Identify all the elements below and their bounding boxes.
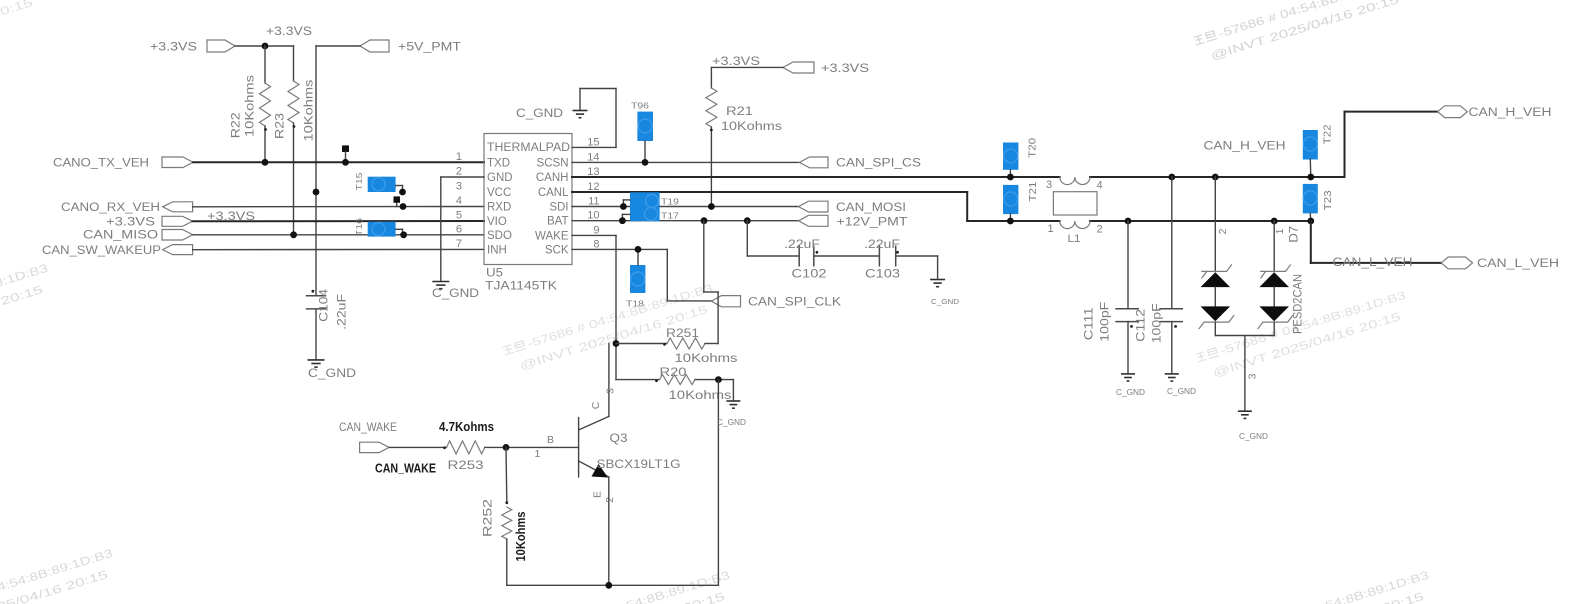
svg-text:R23: R23 <box>275 113 287 139</box>
ground R20 <box>717 401 746 427</box>
svg-text:VIO: VIO <box>487 216 507 228</box>
junction TXD/R22 <box>262 159 269 166</box>
svg-text:9: 9 <box>593 224 599 236</box>
svg-text:CANL: CANL <box>538 187 569 199</box>
svg-text:T16: T16 <box>354 218 364 236</box>
junction SCSN/T96 <box>642 159 649 166</box>
svg-text:CAN_L_VEH: CAN_L_VEH <box>1477 258 1559 270</box>
svg-text:C_GND: C_GND <box>1239 432 1268 441</box>
svg-text:+12V_PMT: +12V_PMT <box>837 217 908 229</box>
port CAN_SPI_CS <box>800 157 922 170</box>
svg-text:4: 4 <box>456 195 462 207</box>
capacitor C112 100pF <box>1136 177 1184 373</box>
svg-text:11: 11 <box>588 196 599 208</box>
capacitor C102 .22uF <box>784 239 827 281</box>
svg-text:10Kohms: 10Kohms <box>514 511 528 561</box>
watermark top-left corner <box>0 0 45 69</box>
ground C111 <box>1116 374 1145 397</box>
net label CAN_H_VEH <box>1204 141 1286 153</box>
node junction +3.3VS/R22 <box>262 43 269 50</box>
svg-text:T23: T23 <box>1323 190 1334 211</box>
svg-text:T96: T96 <box>631 101 649 111</box>
junction RXD stub <box>400 203 407 210</box>
ground C102/C103 <box>930 280 960 307</box>
svg-text:10Kohms: 10Kohms <box>304 79 316 141</box>
junction CANH/C112 <box>1168 174 1175 181</box>
wire THERMALPAD to ground loop <box>572 89 616 148</box>
svg-text:+3.3VS: +3.3VS <box>712 56 760 68</box>
port CANO_TX_VEH <box>53 157 193 170</box>
svg-text:THERMALPAD: THERMALPAD <box>487 142 570 154</box>
wire CANL net pin12 <box>572 192 1311 221</box>
port CAN_MISO <box>83 230 193 242</box>
svg-text:GND: GND <box>487 172 513 184</box>
svg-text:C_GND: C_GND <box>1167 387 1196 396</box>
power flag +3.3VS right <box>783 62 869 75</box>
watermark left-edge <box>0 263 55 356</box>
resistor R253 4.7Kohms <box>389 420 578 472</box>
port CAN_H_VEH hexagon <box>1438 106 1552 119</box>
svg-text:2: 2 <box>456 166 462 178</box>
svg-text:C103: C103 <box>865 269 900 281</box>
svg-text:4.7Kohms: 4.7Kohms <box>439 420 494 434</box>
svg-text:C112: C112 <box>1136 309 1148 342</box>
svg-text:SCSN: SCSN <box>537 157 569 169</box>
wire SDI net pin11 <box>572 206 799 208</box>
svg-text:2: 2 <box>1217 228 1229 234</box>
capacitor C111 100pF <box>1084 221 1140 373</box>
junction BAT/C102 branch <box>744 217 751 224</box>
svg-text:6: 6 <box>456 223 462 235</box>
svg-text:SCK: SCK <box>545 244 569 256</box>
svg-text:100pF: 100pF <box>1152 303 1164 343</box>
svg-text:10Kohms: 10Kohms <box>669 390 732 402</box>
junction CANH/T22 <box>1307 174 1314 181</box>
wire TXD net <box>193 161 484 163</box>
svg-text:1: 1 <box>456 151 462 163</box>
net label +3.3VS on VIO wire <box>207 211 255 223</box>
wire collector from R251 node <box>579 344 609 431</box>
svg-text:R21: R21 <box>726 106 753 118</box>
watermark bottom-right <box>1218 570 1436 604</box>
transistor Q3 SBCX19LT1G <box>535 388 681 503</box>
svg-text:CAN_MISO: CAN_MISO <box>83 230 158 242</box>
svg-text:C: C <box>590 401 602 409</box>
net label +3.3VS <box>266 26 312 38</box>
svg-text:+5V_PMT: +5V_PMT <box>398 42 461 54</box>
svg-text:T17: T17 <box>661 211 679 221</box>
svg-text:CAN_MOSI: CAN_MOSI <box>836 202 906 214</box>
svg-text:CAN_SPI_CS: CAN_SPI_CS <box>836 158 921 170</box>
port CAN_SPI_CLK <box>711 296 841 309</box>
resistor R20 10Kohms <box>616 367 733 402</box>
svg-text:D7: D7 <box>1289 226 1301 243</box>
svg-text:C104: C104 <box>319 288 331 322</box>
junction SCK/T18 <box>635 246 642 253</box>
svg-text:SDO: SDO <box>487 230 512 242</box>
svg-text:INH: INH <box>487 244 507 256</box>
wire SDO/MISO net <box>193 234 484 236</box>
junction SDI/T19 <box>620 203 627 210</box>
testpoint T19/T17 pads <box>622 192 679 221</box>
svg-text:BAT: BAT <box>547 216 569 228</box>
diode D7 PESD2CAN branch 1 <box>1258 221 1293 336</box>
testpoint T18 <box>626 249 645 308</box>
svg-text:14: 14 <box>587 151 599 163</box>
wire RXD net <box>193 206 484 208</box>
label CAN_WAKE dark <box>375 461 436 476</box>
power flag +3.3VS top-left <box>150 40 235 54</box>
port CAN_SW_WAKEUP <box>42 245 193 257</box>
watermark top-right <box>1193 0 1411 66</box>
svg-text:+3.3VS: +3.3VS <box>106 217 155 229</box>
junction SDI/R21 <box>708 203 715 210</box>
svg-text:+3.3VS: +3.3VS <box>150 42 197 54</box>
svg-text:2: 2 <box>1097 224 1103 236</box>
wire +5V_PMT rail to VCC and C104 <box>316 46 360 359</box>
port +3.3VS mid <box>106 216 193 228</box>
resistor R252 10Kohms <box>483 447 529 585</box>
resistor R23 <box>275 46 316 235</box>
watermark bottom-left <box>0 548 120 604</box>
testpoint square marker RXD <box>394 196 401 206</box>
svg-text:CAN_SPI_CLK: CAN_SPI_CLK <box>748 297 841 309</box>
power flag +5V_PMT <box>360 40 461 54</box>
svg-text:100pF: 100pF <box>1100 302 1112 342</box>
wire CAN_L_VEH to port <box>1311 221 1441 263</box>
watermark bottom-center <box>519 570 737 604</box>
svg-text:10Kohms: 10Kohms <box>675 353 738 365</box>
svg-text:U5: U5 <box>486 268 503 280</box>
junction WAKE/R251 <box>613 340 620 347</box>
svg-text:10Kohms: 10Kohms <box>721 121 782 133</box>
junction R20/emitter rail <box>715 376 722 383</box>
svg-text:.22uF: .22uF <box>337 294 349 330</box>
svg-text:T15: T15 <box>354 172 364 190</box>
svg-text:RXD: RXD <box>487 202 511 214</box>
ground thermal pad <box>516 108 588 120</box>
svg-text:.22uF: .22uF <box>784 239 820 251</box>
svg-text:TJA1145TK: TJA1145TK <box>485 281 557 293</box>
svg-text:T19: T19 <box>661 197 679 207</box>
svg-text:15: 15 <box>587 136 599 148</box>
svg-text:B: B <box>547 434 554 446</box>
svg-text:R252: R252 <box>483 499 495 537</box>
svg-text:C_GND: C_GND <box>717 418 746 427</box>
capacitor C103 .22uF <box>864 239 900 281</box>
svg-text:10: 10 <box>587 210 599 222</box>
svg-text:VCC: VCC <box>487 187 511 199</box>
svg-text:C102: C102 <box>792 269 827 281</box>
testpoint T20 <box>1003 137 1039 177</box>
testpoint T23 <box>1303 184 1334 221</box>
wire INH net <box>193 248 484 250</box>
net label CAN_L_VEH on wire <box>1333 257 1413 269</box>
svg-text:C_GND: C_GND <box>432 288 479 300</box>
svg-text:R251: R251 <box>666 328 699 340</box>
svg-text:CAN_L_VEH: CAN_L_VEH <box>1333 257 1413 269</box>
svg-text:R253: R253 <box>448 460 484 472</box>
port CAN_WAKE <box>339 422 397 453</box>
svg-text:CANO_RX_VEH: CANO_RX_VEH <box>61 202 160 214</box>
svg-text:T22: T22 <box>1323 124 1334 145</box>
op-amp U5 TJA1145TK CAN transceiver <box>456 134 600 293</box>
svg-text:3: 3 <box>1046 179 1052 191</box>
svg-text:7: 7 <box>456 238 462 250</box>
junction BAT/T17 <box>619 217 626 224</box>
svg-text:T18: T18 <box>626 299 644 309</box>
testpoint T15 <box>354 172 403 192</box>
svg-text:.22uF: .22uF <box>864 239 900 251</box>
wire BAT net pin10 <box>572 220 799 222</box>
svg-text:PESD2CAN: PESD2CAN <box>1293 274 1305 334</box>
diode D7 PESD2CAN branch 2 <box>1199 177 1234 336</box>
svg-text:3: 3 <box>1247 373 1259 379</box>
svg-text:T20: T20 <box>1028 137 1039 158</box>
junction CANL/T21 <box>1007 218 1014 225</box>
junction TXD square stub <box>342 159 349 166</box>
testpoint T96 <box>631 101 653 163</box>
svg-text:1: 1 <box>1274 228 1286 234</box>
wire emitter to rail <box>507 477 719 585</box>
ground C104 <box>308 360 357 380</box>
wire SCSN net <box>572 161 800 163</box>
junction CANL/C111 <box>1125 218 1132 225</box>
port CANO_RX_VEH <box>61 202 193 214</box>
svg-text:WAKE: WAKE <box>535 230 569 242</box>
testpoint square marker TXD <box>342 145 349 162</box>
ground IC pin2 <box>432 282 479 301</box>
svg-text:1: 1 <box>535 448 541 460</box>
diode D7 labels <box>1289 226 1305 334</box>
junction CANL/D7 pin1 <box>1271 218 1278 225</box>
testpoint T21 <box>1003 181 1039 221</box>
junction BAT/R251 branch <box>701 217 708 224</box>
watermark center <box>502 283 720 376</box>
svg-text:+3.3VS: +3.3VS <box>821 63 869 75</box>
junction VCC/+5V rail <box>313 189 320 196</box>
svg-text:C_GND: C_GND <box>931 297 960 306</box>
svg-text:L1: L1 <box>1068 233 1081 245</box>
watermark right-center <box>1195 290 1413 383</box>
port CAN_MOSI <box>799 201 907 214</box>
svg-text:R20: R20 <box>660 367 687 379</box>
svg-text:3: 3 <box>605 388 617 394</box>
port +12V_PMT <box>799 215 908 228</box>
svg-text:CAN_WAKE: CAN_WAKE <box>339 422 397 434</box>
wire D7 common to ground <box>1215 336 1274 411</box>
svg-text:5: 5 <box>456 210 462 222</box>
testpoint T16 <box>354 218 403 237</box>
svg-text:+3.3VS: +3.3VS <box>266 26 312 38</box>
svg-text:CAN_SW_WAKEUP: CAN_SW_WAKEUP <box>42 245 161 257</box>
wire GND pin2 to ground <box>441 177 484 281</box>
svg-text:CAN_WAKE: CAN_WAKE <box>375 461 436 476</box>
svg-text:Q3: Q3 <box>610 433 628 445</box>
wire SCK net pin8 <box>572 249 711 301</box>
wire +3.3VS top rail <box>235 45 294 47</box>
svg-text:CAN_H_VEH: CAN_H_VEH <box>1204 141 1286 153</box>
wire VIO net <box>193 220 484 222</box>
svg-text:3: 3 <box>456 181 462 193</box>
svg-text:SBCX19LT1G: SBCX19LT1G <box>597 459 681 471</box>
svg-text:C_GND: C_GND <box>308 368 356 380</box>
junction base/R252 <box>503 444 510 451</box>
junction SDO/T16 <box>400 231 407 238</box>
testpoint T22 <box>1303 124 1334 177</box>
wire R20 junction down to rail <box>717 380 719 586</box>
svg-text:E: E <box>592 491 604 498</box>
svg-text:8: 8 <box>593 238 599 250</box>
capacitor C104 .22uF <box>306 288 349 330</box>
wire BAT to C102/C103 <box>747 221 937 278</box>
svg-text:1: 1 <box>1048 223 1054 235</box>
svg-text:C_GND: C_GND <box>1116 388 1145 397</box>
svg-text:T21: T21 <box>1028 181 1039 202</box>
resistor R22 <box>231 46 271 162</box>
svg-text:C_GND: C_GND <box>516 108 563 120</box>
junction VCC/T15 <box>399 189 406 196</box>
ground C112 <box>1165 374 1196 396</box>
svg-text:R22: R22 <box>231 112 243 138</box>
svg-text:SDI: SDI <box>549 202 568 214</box>
svg-text:CANH: CANH <box>536 172 569 184</box>
junction CANL/T23 <box>1307 218 1314 225</box>
junction MISO/R23 <box>290 231 297 238</box>
svg-text:2: 2 <box>604 497 616 503</box>
junction CANH/T20 <box>1007 174 1014 181</box>
svg-text:4: 4 <box>1097 180 1103 192</box>
wire WAKE net pin9 <box>572 235 616 379</box>
svg-text:10Kohms: 10Kohms <box>245 75 257 137</box>
svg-text:CANO_TX_VEH: CANO_TX_VEH <box>53 158 149 170</box>
ground D7 <box>1238 411 1268 441</box>
wire CANH net pin13 <box>572 112 1438 177</box>
resistor R251 10Kohms <box>616 221 738 365</box>
svg-text:C111: C111 <box>1084 307 1096 340</box>
junction emitter/rail <box>605 582 612 589</box>
resistor R21 10Kohms <box>706 67 783 206</box>
port CAN_L_VEH hexagon <box>1441 257 1559 270</box>
net label +3.3VS R21 <box>712 56 760 68</box>
junction CANH/D7 pin2 <box>1212 174 1219 181</box>
inductor L1 common-mode choke <box>1046 177 1103 245</box>
svg-text:TXD: TXD <box>487 157 510 169</box>
svg-text:CAN_H_VEH: CAN_H_VEH <box>1469 107 1552 119</box>
